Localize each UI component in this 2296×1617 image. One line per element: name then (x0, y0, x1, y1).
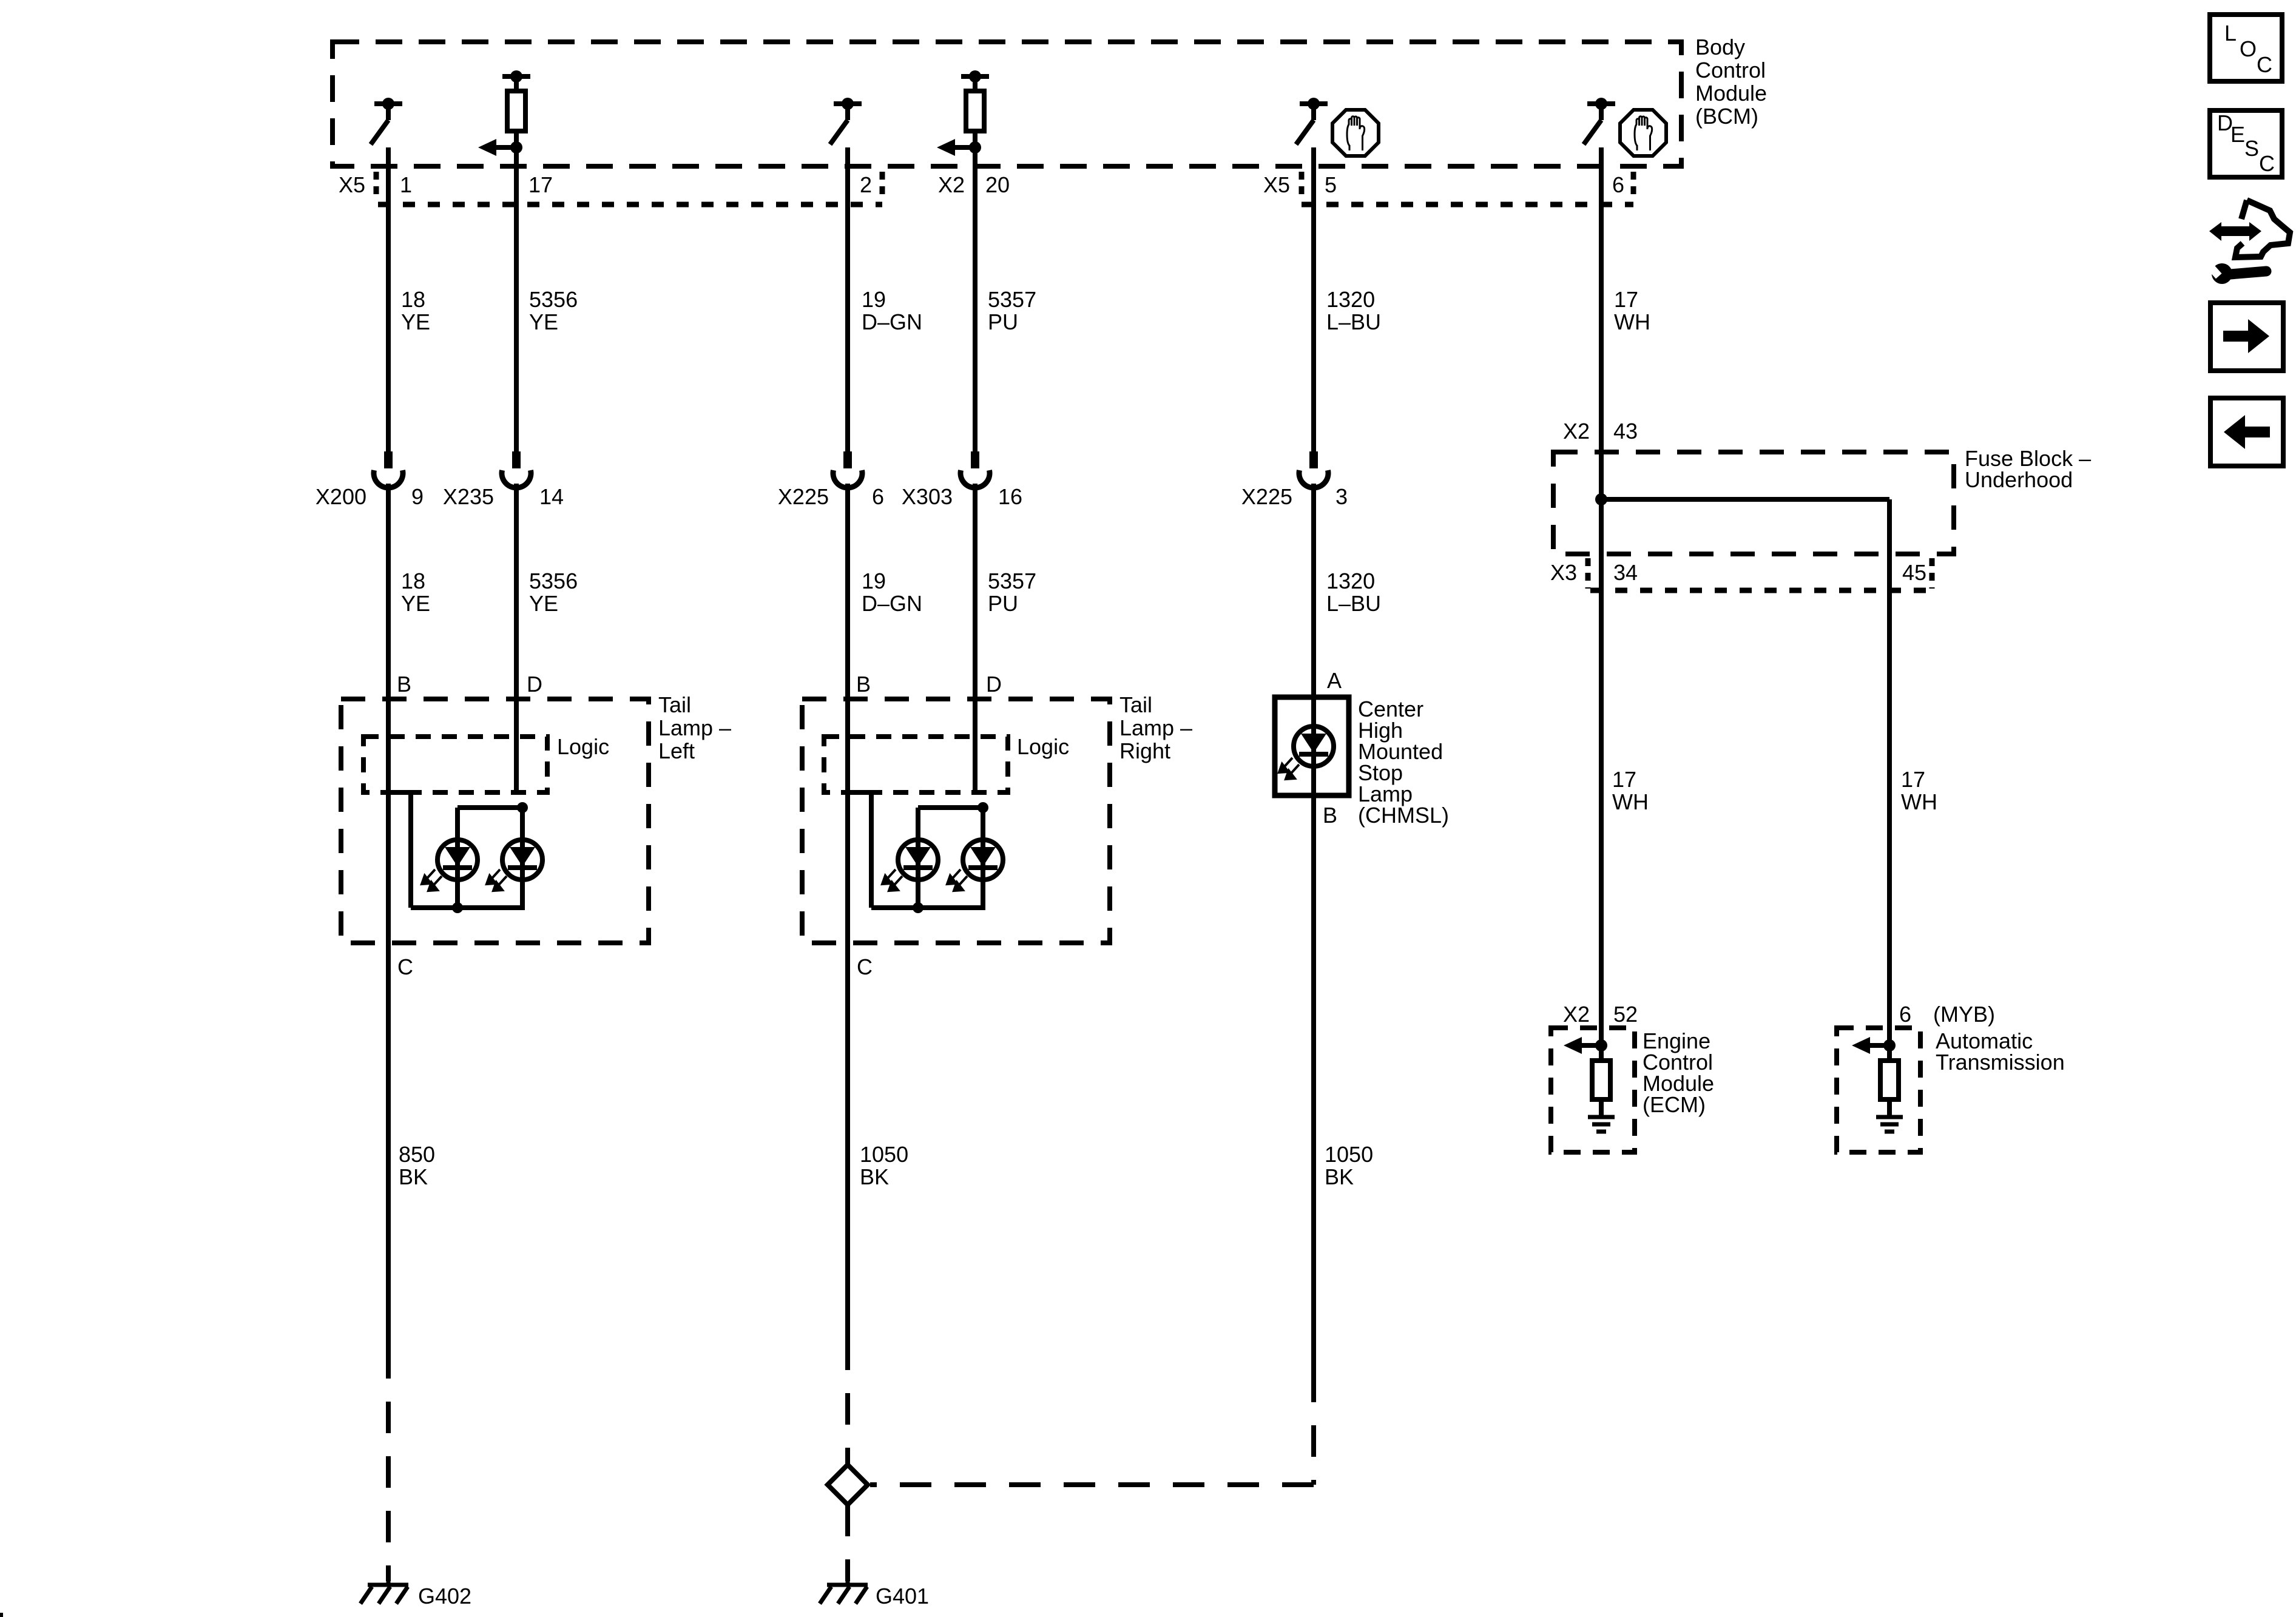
Automatic Transmission internal resistor (1880, 1061, 1899, 1099)
svg-text:BK: BK (1325, 1164, 1354, 1189)
svg-text:X2: X2 (1563, 1002, 1590, 1027)
BCM label (1695, 35, 1767, 129)
junction node at R1 output with sense arrow (478, 139, 522, 156)
svg-text:1320: 1320 (1326, 569, 1375, 593)
connector view icon (car outline, double arrow, wrench) (2204, 200, 2290, 284)
junction dot where pin D wire meets anode rail (977, 802, 988, 813)
svg-text:1320: 1320 (1326, 287, 1375, 312)
wire label 5356 YE (lower) (529, 569, 578, 616)
svg-text:L–BU: L–BU (1326, 309, 1381, 334)
svg-text:19: 19 (862, 287, 886, 312)
wire 1320 L-BU into CHMSL pin A, through to pin B (1311, 484, 1316, 1402)
switch S1 (BCM internal driver) (371, 98, 402, 144)
inline connector X200 (male pin / female terminal) (374, 451, 403, 488)
Tail Lamp - Right dashed box (802, 699, 1110, 943)
LED 1 (422, 808, 478, 908)
svg-text:6: 6 (1899, 1002, 1911, 1027)
wire 5357 PU into Tail Lamp Right pin D (973, 484, 977, 792)
wire label 19 D-GN (lower) (862, 569, 922, 616)
wire 18 YE from BCM X5-1 to connector X200 (386, 147, 391, 451)
Body Control Module (BCM) dashed box (333, 42, 1681, 166)
svg-text:Tail: Tail (1119, 692, 1152, 717)
junction dot on bottom rail (452, 902, 463, 913)
forward arrow icon box (2210, 303, 2283, 371)
connector X235 pin 14 labels (443, 484, 564, 509)
wire label 1320 L-BU (upper) (1326, 287, 1381, 334)
wire label 1320 L-BU (lower) (1326, 569, 1381, 616)
wire 5356 YE into Tail Lamp Left pin D (514, 484, 519, 792)
wire label 17 WH (upper) (1614, 287, 1650, 334)
connector X225 pin 3 labels (1241, 484, 1348, 509)
Automatic Transmission earth ground symbol (1876, 1117, 1903, 1132)
junction node at R2 output with sense arrow (937, 139, 981, 156)
svg-text:L: L (2224, 21, 2237, 46)
inline connector X303 (male pin / female terminal) (961, 451, 990, 488)
svg-text:C: C (2257, 52, 2272, 77)
svg-text:Module: Module (1695, 81, 1767, 106)
svg-text:Lamp –: Lamp – (1119, 715, 1192, 740)
svg-text:43: 43 (1613, 419, 1638, 444)
dashed wire 1050 BK from corner to splice (870, 1482, 1314, 1487)
svg-text:D–GN: D–GN (862, 591, 922, 616)
svg-text:(CHMSL): (CHMSL) (1358, 803, 1449, 828)
Engine Control Module (ECM) internal resistor (1592, 1061, 1610, 1099)
svg-text:WH: WH (1614, 309, 1650, 334)
svg-text:X303: X303 (902, 484, 953, 509)
Engine Control Module (ECM) dashed box (1551, 1028, 1635, 1152)
dashed wire 1050 BK from CHMSL down (1311, 1402, 1316, 1485)
splice diamond (828, 1465, 868, 1505)
svg-text:X225: X225 (1241, 484, 1292, 509)
svg-text:2: 2 (860, 172, 872, 197)
LED cathode (bottom) rail (871, 905, 985, 910)
svg-text:X5: X5 (1263, 172, 1290, 197)
svg-text:1050: 1050 (1325, 1142, 1373, 1167)
LED anode (top) rail from pin D (458, 805, 522, 810)
inline connector X235 (male pin / female terminal) (502, 451, 531, 488)
fuse block internal link wire (1601, 497, 1889, 502)
switch S3 (BCM internal driver) (1296, 98, 1328, 144)
inline connector X225 (male pin / female terminal) (833, 451, 862, 488)
connector X5 pin row (pins 5, 6) (1263, 172, 1633, 204)
wire 1320 L-BU from BCM X5-5 to connector X225 (1311, 147, 1316, 451)
connector X303 pin 16 labels (902, 484, 1022, 509)
Tail Lamp - Right logic dashed box (824, 737, 1008, 792)
inline connector X225 (CHMSL) (male pin / female terminal) (1299, 451, 1328, 488)
resistor R1 (BCM internal pull-up) (502, 70, 530, 147)
wire label 5357 PU (lower) (988, 569, 1036, 616)
Tail Lamp - Left logic dashed box (363, 737, 547, 792)
svg-text:G401: G401 (876, 1584, 929, 1609)
page edge mark (0, 1613, 3, 1617)
svg-text:D: D (527, 672, 542, 697)
svg-text:17: 17 (1901, 767, 1925, 792)
svg-text:1050: 1050 (860, 1142, 908, 1167)
svg-text:18: 18 (401, 287, 425, 312)
svg-text:Tail: Tail (658, 692, 691, 717)
svg-text:19: 19 (862, 569, 886, 593)
connector X2 pin 52 labels (ECM) (1563, 1002, 1638, 1027)
wire label 5357 PU (upper) (988, 287, 1036, 334)
chassis ground symbol G402 (360, 1576, 408, 1604)
LED 2 (487, 808, 542, 908)
svg-text:(MYB): (MYB) (1933, 1002, 1995, 1027)
svg-text:L–BU: L–BU (1326, 591, 1381, 616)
svg-text:Body: Body (1695, 35, 1745, 59)
svg-text:5357: 5357 (988, 569, 1036, 593)
wire 18 YE into Tail Lamp Left pin B, through to pin C (386, 484, 391, 1379)
svg-text:X235: X235 (443, 484, 494, 509)
connector X2 pin 20 labels (938, 172, 1010, 197)
wire 17 WH branch to Automatic Transmission (1887, 499, 1892, 1061)
svg-text:Right: Right (1119, 738, 1170, 763)
svg-text:17: 17 (1612, 767, 1636, 792)
svg-text:B: B (1323, 803, 1337, 828)
svg-text:Lamp –: Lamp – (658, 715, 731, 740)
junction dot where pin D wire meets anode rail (517, 802, 528, 813)
CHMSL solid box (1275, 697, 1349, 795)
svg-text:5357: 5357 (988, 287, 1036, 312)
svg-text:16: 16 (998, 484, 1022, 509)
CHMSL LED (1279, 726, 1334, 779)
wire 17 WH from BCM pin 6 to fuse block (1599, 147, 1604, 1061)
wire label 17 WH (ECM branch) (1612, 767, 1649, 814)
svg-text:D: D (986, 672, 1002, 697)
svg-text:PU: PU (988, 309, 1018, 334)
svg-text:S: S (2244, 136, 2259, 161)
junction dot on bottom rail (913, 902, 923, 913)
svg-text:Transmission: Transmission (1936, 1050, 2065, 1075)
LED 1 (882, 808, 938, 908)
svg-text:5356: 5356 (529, 287, 578, 312)
svg-text:850: 850 (399, 1142, 435, 1167)
switch S2 (BCM internal driver) (830, 98, 862, 144)
junction dot inside fuse block (1595, 493, 1607, 505)
Automatic Transmission internal wire to ground (1887, 1099, 1892, 1117)
svg-text:3: 3 (1335, 484, 1348, 509)
svg-text:5356: 5356 (529, 569, 578, 593)
DESC icon box (2210, 110, 2282, 177)
pin 6 and (MYB) labels (Automatic Transmission) (1899, 1002, 1995, 1027)
switch S4 (BCM internal driver) (1584, 98, 1615, 144)
wire 19 D-GN into Tail Lamp Right pin B, through to pin C (845, 484, 850, 1370)
wire label 18 YE (upper) (401, 287, 430, 334)
Engine Control Module label (1643, 1028, 1714, 1117)
svg-text:(ECM): (ECM) (1643, 1092, 1706, 1117)
svg-text:YE: YE (401, 309, 430, 334)
LED 2 (947, 808, 1003, 908)
LOC icon box (2210, 15, 2282, 81)
Fuse Block - Underhood dashed box (1553, 452, 1954, 554)
svg-text:Left: Left (658, 738, 695, 763)
wire label 1050 BK (right lamp) (860, 1142, 908, 1189)
svg-text:X3: X3 (1550, 560, 1577, 585)
wire 5357 PU from BCM X2-20 to connector X303 (973, 147, 977, 451)
svg-text:5: 5 (1325, 172, 1337, 197)
Fuse Block - Underhood label (1965, 446, 2091, 492)
svg-text:17: 17 (528, 172, 553, 197)
chassis ground symbol G401 (820, 1576, 868, 1604)
Automatic Transmission dashed box (1837, 1028, 1920, 1152)
wire label 5356 YE (upper) (529, 287, 578, 334)
Engine Control Module (ECM) internal wire to ground (1599, 1099, 1604, 1117)
svg-text:G402: G402 (418, 1584, 471, 1609)
wire label 19 D-GN (upper) (862, 287, 922, 334)
connector X5 pin row (pins 1, 17, 2) (339, 172, 882, 204)
svg-text:6: 6 (1612, 172, 1624, 197)
svg-text:O: O (2240, 36, 2257, 61)
svg-text:D–GN: D–GN (862, 309, 922, 334)
dashed wire from splice to ground G401 (845, 1505, 850, 1581)
svg-text:Logic: Logic (557, 734, 609, 759)
wire label 18 YE (lower) (401, 569, 430, 616)
CHMSL label (1358, 697, 1449, 828)
stop-hand octagon icon 2 (1620, 110, 1666, 156)
svg-text:B: B (397, 672, 411, 697)
svg-text:20: 20 (985, 172, 1010, 197)
dashed wire 1050 BK to splice diamond (845, 1370, 850, 1465)
svg-text:WH: WH (1901, 789, 1937, 814)
svg-text:Underhood: Underhood (1965, 467, 2073, 492)
svg-text:X200: X200 (316, 484, 366, 509)
svg-text:YE: YE (529, 309, 558, 334)
Engine Control Module (ECM) earth ground symbol (1588, 1117, 1615, 1132)
Automatic Transmission internal junction dot and signal arrow (1852, 1037, 1896, 1054)
svg-text:B: B (856, 672, 871, 697)
connector X225 pin 6 labels (778, 484, 884, 509)
svg-text:Control: Control (1695, 58, 1766, 83)
svg-text:X5: X5 (339, 172, 365, 197)
svg-text:C: C (2259, 151, 2275, 176)
svg-text:X2: X2 (1563, 419, 1590, 444)
svg-text:17: 17 (1614, 287, 1638, 312)
wire 5356 YE from BCM pin 17 to connector X235 (514, 147, 519, 451)
svg-text:A: A (1327, 668, 1342, 693)
svg-text:BK: BK (399, 1164, 428, 1189)
svg-text:14: 14 (539, 484, 564, 509)
Engine Control Module (ECM) internal junction dot and signal arrow (1564, 1037, 1607, 1054)
svg-text:9: 9 (411, 484, 424, 509)
Tail Lamp - Left label (658, 692, 731, 763)
resistor R2 (BCM internal pull-up) (961, 70, 989, 147)
connector X200 pin 9 labels (316, 484, 424, 509)
svg-text:C: C (397, 954, 413, 979)
wire branch from pin B path to LED cathode rail (848, 792, 871, 908)
svg-text:BK: BK (860, 1164, 889, 1189)
svg-text:WH: WH (1612, 789, 1649, 814)
svg-text:C: C (857, 954, 873, 979)
svg-text:18: 18 (401, 569, 425, 593)
svg-text:(BCM): (BCM) (1695, 104, 1758, 129)
dashed wire 850 BK to ground G402 (386, 1379, 391, 1581)
Tail Lamp - Right label (1119, 692, 1192, 763)
wire 19 D-GN from BCM pin 2 to connector X225 (845, 147, 850, 451)
svg-text:E: E (2230, 122, 2245, 147)
svg-text:6: 6 (872, 484, 884, 509)
svg-text:52: 52 (1613, 1002, 1638, 1027)
connector X3 pin row (pins 34, 45) (1550, 558, 1932, 590)
connector X2 pin 43 labels (fuse block) (1563, 419, 1638, 444)
wire label 850 BK (399, 1142, 435, 1189)
svg-text:Logic: Logic (1017, 734, 1069, 759)
svg-text:45: 45 (1902, 560, 1926, 585)
svg-text:PU: PU (988, 591, 1018, 616)
LED cathode (bottom) rail (411, 905, 525, 910)
svg-text:YE: YE (529, 591, 558, 616)
svg-text:X225: X225 (778, 484, 829, 509)
svg-text:1: 1 (400, 172, 412, 197)
Automatic Transmission label (1936, 1028, 2065, 1075)
wire label 17 WH (transmission branch) (1901, 767, 1937, 814)
wire label 1050 BK (CHMSL) (1325, 1142, 1373, 1189)
back arrow icon box (2210, 398, 2283, 466)
svg-text:34: 34 (1613, 560, 1638, 585)
svg-text:X2: X2 (938, 172, 965, 197)
Tail Lamp - Left dashed box (341, 699, 649, 943)
svg-text:YE: YE (401, 591, 430, 616)
wire branch from pin B path to LED cathode rail (388, 792, 411, 908)
stop-hand octagon icon 1 (1332, 110, 1379, 156)
LED anode (top) rail from pin D (918, 805, 983, 810)
